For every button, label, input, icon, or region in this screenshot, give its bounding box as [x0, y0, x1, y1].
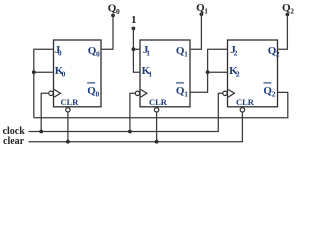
svg-text:CLR: CLR [61, 97, 80, 107]
CLR bubble U3 [240, 108, 244, 112]
CLR bubble U1 [66, 108, 70, 112]
terminal Q0 label [108, 2, 120, 16]
label Q1-bar output [176, 83, 188, 99]
junction K0 [32, 70, 36, 74]
clock triangle U2 [141, 90, 147, 98]
svg-text:1: 1 [204, 6, 208, 15]
wire clear rail [29, 112, 243, 142]
svg-text:0: 0 [116, 7, 120, 16]
wire Q1-bar to J2 K2 [190, 49, 228, 92]
flip-flop U2 box [140, 40, 190, 107]
terminal Q2 label [282, 2, 294, 16]
svg-text:2: 2 [234, 49, 238, 58]
terminal Q1 label [196, 2, 208, 16]
junction clear U2 [155, 140, 159, 144]
label Q1 output [176, 45, 188, 59]
clock bubble U3 [223, 91, 227, 95]
wire Q2 output to terminal [278, 15, 288, 50]
svg-text:0: 0 [96, 49, 100, 58]
wire clock rail [29, 93, 223, 131]
svg-text:clear: clear [3, 136, 25, 147]
svg-text:2: 2 [236, 70, 240, 79]
label K2 [229, 65, 240, 79]
svg-text:CLR: CLR [236, 97, 255, 107]
svg-text:CLR: CLR [149, 97, 168, 107]
svg-text:2: 2 [276, 49, 280, 58]
svg-text:0: 0 [96, 90, 100, 99]
flip-flop U3 box [228, 40, 278, 107]
svg-text:1: 1 [184, 90, 188, 99]
label Q2-bar output [263, 83, 275, 99]
label Q2 output [268, 45, 280, 59]
clock triangle U1 [54, 90, 60, 98]
svg-text:0: 0 [62, 70, 66, 79]
terminal Q0 dot [111, 14, 115, 18]
svg-text:1: 1 [131, 14, 137, 26]
clock bubble U1 [49, 91, 53, 95]
junction clear U1 [66, 140, 70, 144]
CLR bubble U2 [154, 108, 158, 112]
junction K2 [206, 70, 210, 74]
label J1 [143, 44, 150, 58]
wire Q2-bar feedback rail [34, 92, 288, 117]
wire 1 to J1 and K1 [133, 28, 140, 72]
label J0 [55, 44, 62, 58]
label K0 [55, 65, 66, 79]
flip-flop U1 box [54, 40, 102, 107]
label K1 [142, 65, 153, 79]
junction clock U2 [128, 130, 132, 134]
label J2 [230, 44, 237, 58]
label Q0-bar output [87, 83, 99, 99]
svg-text:1: 1 [146, 49, 150, 58]
junction clock U1 [39, 130, 43, 134]
wire J0 K0 from feedback rail [34, 49, 54, 118]
label Q0 output [88, 45, 100, 59]
terminal logic-1 dot [132, 27, 136, 31]
clock bubble U2 [135, 91, 139, 95]
svg-text:0: 0 [58, 49, 62, 58]
terminal Q1 dot [200, 12, 204, 16]
clock triangle U3 [228, 90, 234, 98]
wire clear stub U2 [156, 112, 158, 142]
junction J1 [132, 47, 136, 51]
wire Q1 output to terminal [190, 14, 201, 49]
terminal Q2 dot [286, 13, 290, 17]
wire Q0 output to terminal [101, 15, 113, 49]
svg-text:2: 2 [272, 90, 276, 99]
svg-text:1: 1 [148, 70, 152, 79]
svg-text:1: 1 [184, 49, 188, 58]
svg-text:2: 2 [290, 6, 294, 15]
wire clock stub U2 [130, 93, 135, 131]
